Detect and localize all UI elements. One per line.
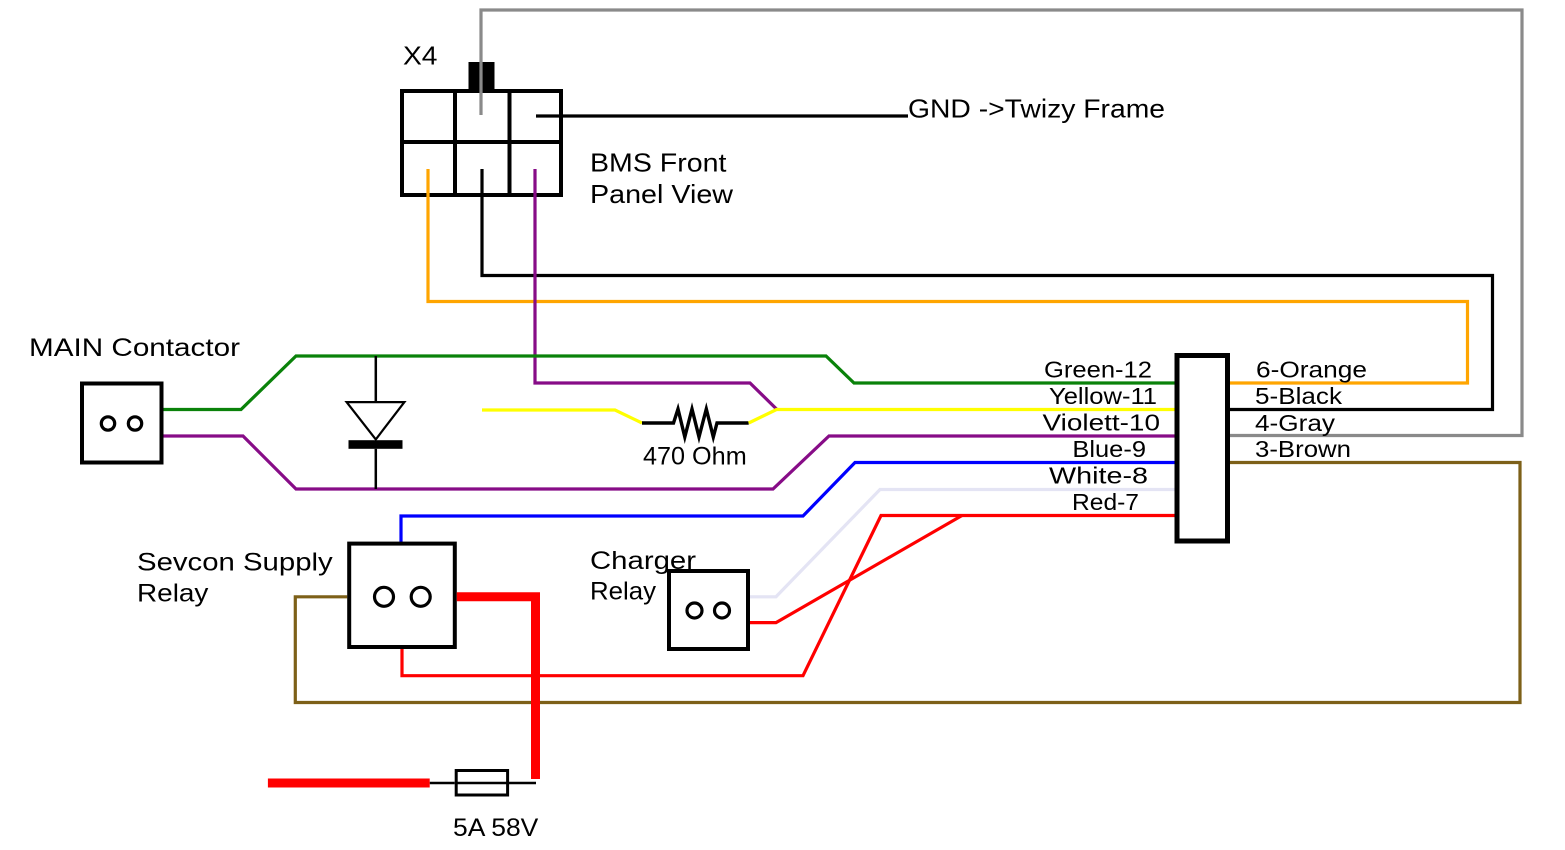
svg-text:3-Brown: 3-Brown (1255, 436, 1351, 462)
svg-text:GND ->Twizy Frame: GND ->Twizy Frame (908, 94, 1165, 124)
relay Sevcon terminal right (411, 587, 430, 606)
svg-text:5-Black: 5-Black (1255, 383, 1342, 409)
diode triangle (347, 402, 405, 439)
svg-text:5A 58V: 5A 58V (453, 814, 539, 842)
fuse F1 body (456, 771, 507, 796)
svg-text:White-8: White-8 (1049, 463, 1148, 489)
wire white Charger to White-8 (750, 490, 1175, 597)
wire yellow right to Yellow-11 (749, 410, 1175, 424)
svg-text:Green-12: Green-12 (1044, 357, 1152, 383)
resistor R1 470 Ohm (642, 409, 749, 437)
wire green MAIN Contactor to Green-12 (163, 356, 1175, 410)
wire black X4 to 5-Black (482, 169, 1493, 410)
wire blue Sevcon to Blue-9 (401, 463, 1175, 543)
svg-text:BMS Front: BMS Front (590, 148, 727, 178)
svg-text:Relay: Relay (590, 578, 657, 606)
wire purple MAIN Contactor to Violett-10 (163, 436, 1175, 489)
connector X4 tab (469, 62, 495, 89)
svg-text:4-Gray: 4-Gray (1255, 410, 1335, 436)
fuse F1 left lead (430, 782, 455, 785)
contactor MAIN terminal left (101, 417, 114, 430)
wire orange X4 to 6-Orange (428, 169, 1468, 383)
wire gray X4 pin to 4-Gray (481, 10, 1522, 436)
relay Sevcon terminal left (375, 587, 394, 606)
svg-text:Blue-9: Blue-9 (1072, 436, 1146, 462)
relay Charger terminal right (715, 603, 730, 618)
wire red Sevcon bottom to Red-7 (402, 516, 1175, 676)
svg-text:Red-7: Red-7 (1072, 489, 1139, 515)
svg-text:X4: X4 (403, 41, 438, 71)
wire red Charger to Red-7 junction (750, 516, 962, 623)
relay Charger terminal left (687, 603, 702, 618)
svg-text:Sevcon Supply: Sevcon Supply (137, 549, 333, 577)
svg-text:Yellow-11: Yellow-11 (1049, 383, 1157, 409)
fuse F1 right lead (508, 782, 536, 785)
contactor MAIN body (82, 384, 162, 463)
wire yellow left segment (482, 410, 642, 423)
diode cathode lead (375, 449, 378, 489)
svg-text:470 Ohm: 470 Ohm (643, 443, 747, 471)
wire black GND stub (536, 114, 908, 117)
diode cathode bar (349, 440, 403, 449)
wire red thick supply from Sevcon to fuse (457, 597, 536, 779)
contactor MAIN terminal right (128, 417, 141, 430)
relay Charger body (669, 571, 748, 649)
wire red thick battery feed (268, 779, 430, 788)
diode anode lead (375, 356, 378, 403)
wire purple X4 to yellow junction (535, 169, 777, 410)
svg-text:6-Orange: 6-Orange (1256, 357, 1367, 383)
relay Sevcon Supply body (349, 544, 455, 647)
wire brown Sevcon to 3-Brown (295, 463, 1520, 703)
fuse F1 element line (456, 782, 507, 785)
svg-text:Charger: Charger (590, 547, 696, 575)
connector X4 body (402, 91, 561, 195)
svg-text:MAIN Contactor: MAIN Contactor (29, 334, 240, 362)
connector block 12-pin (1177, 356, 1228, 542)
svg-text:Relay: Relay (137, 580, 209, 608)
svg-text:Violett-10: Violett-10 (1043, 410, 1161, 436)
svg-text:Panel View: Panel View (590, 179, 733, 209)
